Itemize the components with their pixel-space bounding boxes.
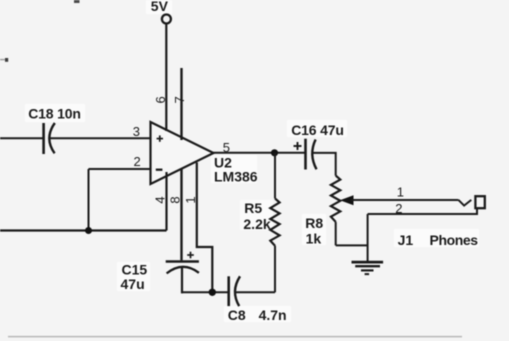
svg-text:4.7n: 4.7n [259, 307, 287, 323]
resistor R5 [270, 153, 279, 292]
wire pin1 bend to bottom node [197, 163, 213, 293]
jack J1 tip contact notch [458, 200, 471, 206]
op-amp U2 triangle [151, 122, 214, 184]
svg-text:1: 1 [397, 185, 404, 200]
wire ground vertical [367, 214, 369, 262]
svg-text:1k: 1k [306, 231, 322, 247]
crop remnant mark left edge [0, 58, 8, 62]
wire pin6 supply vertical [165, 24, 167, 131]
wire jack pin1 horizontal [351, 199, 458, 201]
op-amp minus input mark [156, 169, 163, 171]
junction dot output node [271, 149, 278, 156]
ground [352, 262, 384, 274]
capacitor C16 electrolytic [306, 139, 317, 170]
svg-text:5V: 5V [151, 0, 169, 14]
svg-text:4: 4 [153, 196, 168, 203]
wire pin3 input right segment [50, 137, 151, 139]
capacitor C8 [229, 276, 240, 306]
svg-text:J1: J1 [398, 232, 414, 248]
svg-text:7: 7 [172, 96, 187, 103]
scan artifact bottom gray line [8, 336, 462, 338]
wire R8 bottom to ground net [336, 244, 368, 246]
junction dot A [85, 227, 92, 234]
wire C16 to R8 top [313, 153, 336, 176]
wire pin7 vertical [180, 68, 182, 140]
wire pin3 input left segment [0, 137, 44, 139]
svg-text:8: 8 [168, 196, 183, 203]
svg-text:3: 3 [133, 124, 140, 139]
svg-text:2.2k: 2.2k [243, 216, 270, 232]
svg-text:R8: R8 [305, 215, 323, 231]
svg-text:R5: R5 [244, 200, 262, 216]
R8 wiper arrow [340, 195, 354, 205]
wire C8 to R5 bottom [235, 291, 275, 293]
svg-text:C16 47u: C16 47u [291, 122, 344, 138]
svg-text:Phones: Phones [430, 232, 479, 248]
jack J1 sleeve square [475, 196, 484, 208]
5V power terminal [151, 0, 171, 23]
svg-text:2: 2 [134, 154, 141, 169]
svg-text:C18 10n: C18 10n [28, 106, 81, 122]
svg-text:47u: 47u [121, 276, 145, 292]
op-amp plus input mark [157, 135, 163, 141]
svg-text:2: 2 [395, 201, 402, 216]
svg-text:LM386: LM386 [214, 168, 258, 184]
C16 plus polarity mark [294, 142, 302, 150]
wire pin4 vertical [165, 172, 167, 231]
svg-text:C8: C8 [228, 307, 246, 323]
capacitor C18 [44, 123, 55, 154]
svg-text:5: 5 [223, 140, 230, 155]
wire bottom-left horizontal [0, 229, 167, 231]
wire jack pin2 horizontal [368, 208, 477, 214]
wire output pin5 horizontal [214, 152, 306, 154]
C15 plus polarity mark [187, 252, 194, 259]
potentiometer R8 [331, 176, 340, 246]
wire bottom node horizontal [181, 291, 229, 293]
wire pin2 input horizontal [89, 168, 151, 170]
svg-text:1: 1 [183, 196, 198, 203]
wire pin2 feedback vertical [88, 169, 90, 231]
crop remnant mark top edge [74, 0, 80, 3]
wire pin8 vertical to C15 [180, 169, 182, 260]
svg-text:C15: C15 [122, 262, 148, 278]
capacitor C15 electrolytic [166, 262, 199, 294]
junction dot bottom node [209, 289, 216, 296]
svg-text:6: 6 [153, 96, 168, 103]
